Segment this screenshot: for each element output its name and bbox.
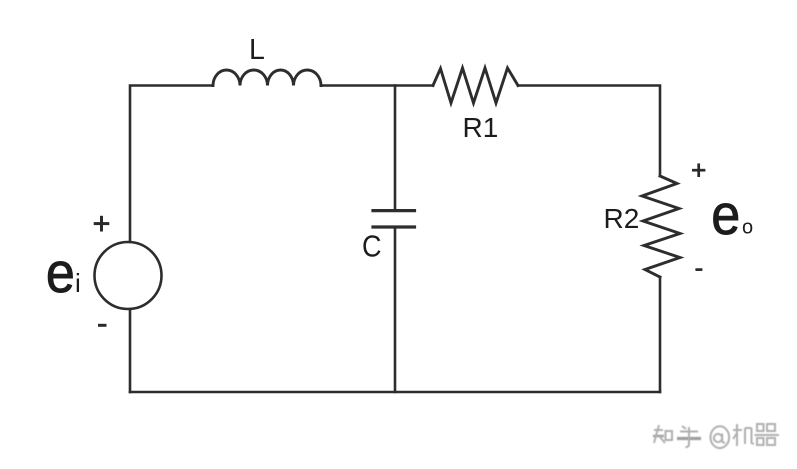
svg-text:i: i <box>75 268 81 298</box>
resistor R2 <box>642 176 680 277</box>
watermark at sign <box>711 426 730 448</box>
wire top-left (source to inductor) <box>130 86 213 243</box>
output plus sign <box>692 163 705 177</box>
wire node A to capacitor <box>394 86 397 210</box>
output minus sign <box>695 268 702 271</box>
wire capacitor to bottom rail <box>394 227 397 392</box>
watermark zhihu <box>653 424 779 447</box>
wire inductor to node A <box>321 84 433 87</box>
svg-text:R2: R2 <box>604 203 640 234</box>
svg-text:L: L <box>249 34 265 66</box>
wire source bottom <box>129 309 132 392</box>
svg-text:e: e <box>46 241 75 305</box>
wire right rail bottom <box>659 277 662 392</box>
source U1 circle <box>95 242 162 309</box>
svg-text:o: o <box>742 217 753 239</box>
resistor R1 <box>433 68 518 103</box>
svg-text:e: e <box>711 183 740 247</box>
capacitor C top plate <box>373 209 415 212</box>
source plus sign <box>94 216 110 232</box>
source minus sign <box>98 324 107 327</box>
inductor L <box>213 70 321 86</box>
svg-text:R1: R1 <box>463 112 499 143</box>
svg-text:C: C <box>362 230 382 264</box>
capacitor C bottom plate <box>373 225 415 228</box>
wire R1 to right rail <box>518 86 660 177</box>
wire bottom rail <box>130 391 660 394</box>
